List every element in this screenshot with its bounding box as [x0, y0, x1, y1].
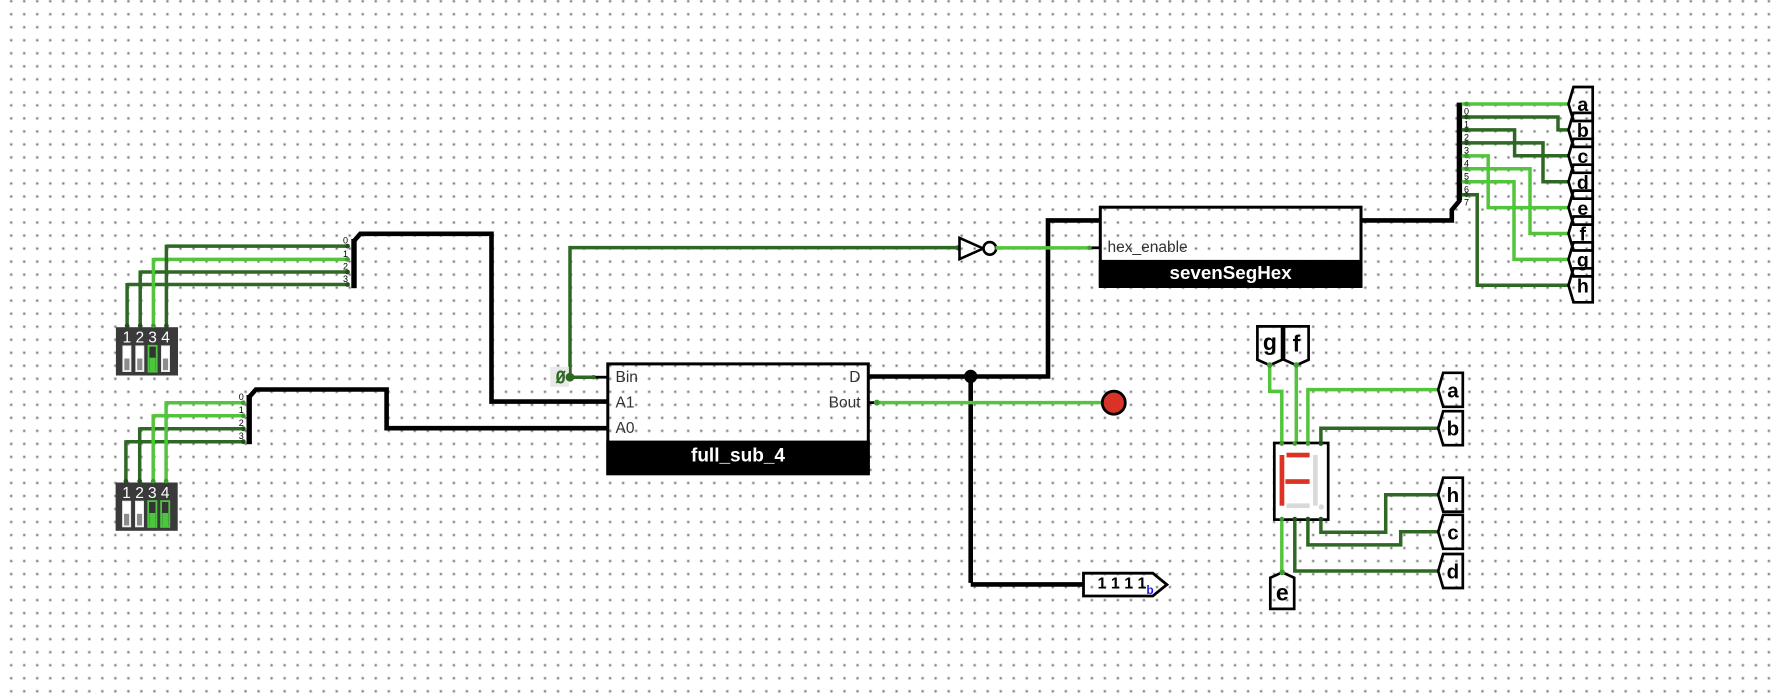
- output pin d2: [1438, 554, 1463, 588]
- Bout pin stub: [868, 401, 877, 404]
- wire bit1 to b: [1462, 117, 1569, 130]
- svg-text:6: 6: [1464, 185, 1469, 195]
- svg-text:sevenSegHex: sevenSegHex: [1170, 262, 1293, 283]
- NOT gate U1: [955, 245, 960, 250]
- wire Bout to LED: [876, 401, 1102, 405]
- DIP SW1 pin dots: [125, 324, 169, 329]
- switch 1 off: [123, 346, 131, 372]
- display pin dots top: [1280, 441, 1324, 446]
- wire bit3 to d: [1462, 143, 1569, 182]
- wire sw4 row0 horizontal: [166, 244, 348, 248]
- wire display to h: [1321, 495, 1438, 533]
- wire sw4b row0 horizontal: [166, 401, 244, 405]
- wire display to a: [1308, 390, 1438, 443]
- bus S1 to A1: [354, 234, 608, 402]
- output pin f: [1569, 217, 1593, 251]
- constant 0: [550, 367, 569, 387]
- wire D to sevenSegHex: [868, 220, 1100, 376]
- svg-text:1: 1: [123, 330, 132, 347]
- splitter S3 bar: [1457, 103, 1462, 200]
- svg-text:b: b: [1146, 583, 1153, 597]
- svg-text:full_sub_4: full_sub_4: [691, 446, 785, 467]
- input pin e: [1270, 572, 1294, 609]
- svg-text:3: 3: [148, 485, 157, 502]
- segments b c unlit: [1313, 455, 1318, 506]
- body sevenSegHex: [1100, 207, 1361, 286]
- wire sw2b vertical: [138, 427, 142, 482]
- bus S2 to A0: [249, 390, 608, 429]
- splitter S2 pin dots: [241, 400, 246, 444]
- svg-text:2: 2: [239, 418, 244, 428]
- svg-text:hex_enable: hex_enable: [1108, 239, 1188, 256]
- splitter S2 labels: [239, 392, 244, 441]
- svg-text:a: a: [1577, 94, 1588, 116]
- svg-text:d: d: [1447, 561, 1460, 584]
- junction dot D: [964, 370, 977, 383]
- svg-text:0: 0: [1464, 107, 1469, 117]
- svg-text:e: e: [1577, 198, 1588, 220]
- wire sw4b vertical: [164, 401, 168, 482]
- wire sw3 row1 horizontal: [153, 258, 348, 262]
- splitter S1 labels: [343, 236, 348, 284]
- body full_sub_4: [608, 364, 869, 474]
- svg-text:0: 0: [343, 236, 348, 246]
- wire D to probe: [968, 377, 973, 583]
- svg-text:3: 3: [239, 431, 244, 441]
- svg-text:1: 1: [1464, 120, 1469, 130]
- output pin e: [1569, 191, 1593, 225]
- DIP switch SW1 (top): [116, 327, 178, 375]
- svg-text:4: 4: [1464, 159, 1469, 169]
- svg-text:b: b: [1447, 418, 1460, 441]
- output pin g: [1569, 242, 1593, 276]
- output pin d: [1569, 165, 1593, 199]
- svg-text:h: h: [1447, 484, 1460, 507]
- splitter S3 pin dots: [1464, 102, 1469, 198]
- input pin f: [1284, 326, 1309, 365]
- output pin h: [1569, 268, 1593, 302]
- svg-text:4: 4: [161, 485, 170, 502]
- output pin h2: [1438, 478, 1463, 512]
- wire sw1 row3 horizontal: [127, 283, 348, 287]
- wire sw3b vertical: [151, 414, 155, 482]
- switch 4 off: [161, 346, 169, 372]
- DIP SW2 pin dots: [124, 479, 169, 484]
- wire sw3 vertical: [152, 258, 156, 327]
- segments f e lit: [1280, 455, 1285, 506]
- switch 1 off: [123, 501, 131, 527]
- wire bit4 to e: [1462, 156, 1569, 208]
- wire g in to display: [1270, 365, 1282, 443]
- seven segment display D1: [1274, 443, 1328, 520]
- wire sw2 vertical: [138, 271, 142, 328]
- svg-text:g: g: [1263, 329, 1277, 355]
- switch 3 on: [149, 346, 157, 372]
- switch 4 on: [161, 501, 169, 527]
- svg-text:3: 3: [1464, 146, 1469, 156]
- wire bit6 to g: [1462, 182, 1569, 260]
- svg-text:b: b: [1577, 120, 1589, 142]
- output pin b: [1569, 113, 1593, 147]
- svg-text:Bout: Bout: [829, 395, 862, 412]
- wire f in to display: [1295, 365, 1299, 443]
- wire display to d: [1295, 520, 1438, 571]
- svg-text:f: f: [1293, 331, 1301, 357]
- junction dot at 0: [566, 373, 575, 382]
- svg-text:A1: A1: [616, 395, 635, 412]
- name bar full_sub_4: [606, 441, 870, 476]
- wire NOT out to hex_enable: [995, 246, 1090, 250]
- wire display to b: [1321, 428, 1438, 443]
- segment g lit: [1285, 479, 1309, 484]
- wire 0 to Bin: [568, 375, 596, 379]
- wire bit5 to f: [1462, 169, 1569, 234]
- wire sw4 vertical: [165, 245, 169, 328]
- output pin a: [1569, 87, 1593, 121]
- wire sw2 row2 horizontal: [140, 270, 348, 274]
- svg-text:c: c: [1447, 521, 1458, 544]
- svg-text:h: h: [1577, 276, 1589, 298]
- segment d unlit: [1287, 503, 1310, 508]
- svg-text:2: 2: [1464, 133, 1469, 143]
- input pin g: [1257, 326, 1282, 365]
- output pin a2: [1438, 373, 1463, 407]
- Bin pin stub: [595, 376, 608, 379]
- splitter S3 labels: [1464, 107, 1469, 208]
- svg-text:g: g: [1577, 250, 1589, 272]
- svg-text:c: c: [1577, 146, 1588, 168]
- svg-text:0: 0: [239, 392, 244, 402]
- wire sw1b vertical: [124, 440, 128, 482]
- pin tip dots g f e: [1267, 362, 1273, 368]
- segment a lit: [1287, 453, 1310, 458]
- svg-text:3: 3: [343, 274, 348, 284]
- wire display to e: [1280, 520, 1284, 573]
- wire bit7 to h: [1462, 195, 1569, 286]
- output pin c: [1569, 139, 1593, 173]
- name bar sevenSegHex: [1099, 260, 1363, 287]
- LED R1: [1102, 391, 1125, 414]
- svg-text:d: d: [1577, 172, 1589, 194]
- svg-text:1 1 1 1: 1 1 1 1: [1098, 576, 1147, 593]
- svg-text:a: a: [1447, 379, 1459, 402]
- probe P1: [1084, 573, 1167, 596]
- svg-text:1: 1: [122, 485, 131, 502]
- wire display to c: [1308, 520, 1438, 545]
- wire bit2 to c: [1462, 130, 1569, 156]
- switch 2 off: [136, 346, 144, 372]
- switch 3 on: [148, 501, 156, 527]
- svg-text:e: e: [1276, 580, 1289, 606]
- wire sw3b row1 horizontal: [153, 414, 244, 418]
- wire 0 to NOT gate: [570, 248, 959, 378]
- wire bit0 to a: [1462, 102, 1569, 106]
- wire sw1b row3 horizontal: [126, 440, 244, 444]
- wire sw1 vertical: [125, 283, 129, 327]
- display pin dots bottom: [1280, 517, 1324, 522]
- svg-text:4: 4: [161, 330, 170, 347]
- svg-text:D: D: [849, 369, 860, 386]
- hex_enable pin stub: [1089, 246, 1100, 249]
- output pin b2: [1438, 411, 1463, 445]
- svg-text:Bin: Bin: [616, 369, 638, 386]
- splitter S1 pin dots: [345, 244, 350, 287]
- svg-text:3: 3: [148, 330, 157, 347]
- splitter S1 bar: [351, 239, 356, 288]
- svg-text:f: f: [1580, 224, 1587, 246]
- svg-text:5: 5: [1464, 172, 1469, 182]
- svg-text:2: 2: [135, 330, 144, 347]
- DIP switch SW2 (bottom): [116, 483, 178, 531]
- switch 2 off: [135, 501, 143, 527]
- svg-text:1: 1: [343, 249, 348, 259]
- svg-text:1: 1: [239, 405, 244, 415]
- output pin c2: [1438, 515, 1463, 549]
- decimal point unlit: [1319, 504, 1324, 509]
- svg-text:2: 2: [343, 261, 348, 271]
- splitter S2 bar: [247, 395, 252, 444]
- wire sw2b row2 horizontal: [140, 427, 245, 431]
- svg-text:2: 2: [135, 485, 144, 502]
- svg-text:7: 7: [1464, 197, 1469, 207]
- svg-text:A0: A0: [616, 420, 635, 437]
